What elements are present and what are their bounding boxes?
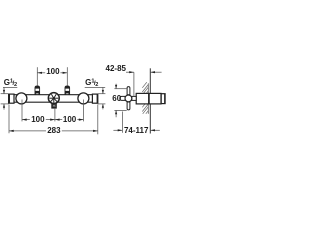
handle top arm <box>127 87 130 95</box>
wall hatch boundary below body <box>147 102 149 114</box>
G1/2 right down arrow <box>102 87 104 93</box>
dimension 60: bottom stub <box>114 109 126 111</box>
G1/2 right bottom stub <box>98 103 106 105</box>
wall hatch boundary above body <box>147 83 149 93</box>
left end block face line <box>8 94 10 103</box>
svg-text:283: 283 <box>47 126 61 135</box>
handle hub <box>125 95 132 102</box>
G1/2 left bottom stub <box>1 103 9 105</box>
left union nut circle <box>16 93 27 104</box>
neck between hub and body <box>132 96 136 100</box>
body end cap <box>161 94 165 104</box>
wall hatching above body <box>142 82 148 93</box>
valve body main cylinder <box>136 93 161 104</box>
wire: bar top edge <box>9 94 98 96</box>
svg-text:60: 60 <box>112 94 121 103</box>
body joint line at wall <box>148 93 150 104</box>
dimension 60: lower segment + up arrow <box>115 110 117 117</box>
handle front arm (towards viewer) <box>120 96 125 100</box>
dimension 60: upper segment + down arrow <box>115 84 117 89</box>
top fitting left <box>35 86 40 95</box>
right union nut circle <box>78 93 89 104</box>
svg-text:100: 100 <box>46 67 60 76</box>
dimension 100 top: extension lines <box>36 67 38 85</box>
top fitting right <box>65 86 70 95</box>
svg-text:100: 100 <box>31 115 45 124</box>
G1/2 right leader underline <box>85 86 106 88</box>
wire: bar bottom edge <box>9 101 98 103</box>
dimension 100 lower-left: extension lines <box>21 100 23 122</box>
dimension 100 lower-right: line + arrows <box>55 119 84 121</box>
dimension 74-117: left arrow <box>113 129 122 131</box>
G1/2 left top stub <box>1 93 9 95</box>
dimension 42-85: left arrow <box>126 71 134 73</box>
outlet stem below handwheel <box>52 104 56 108</box>
dimension 100 top: line + arrows <box>37 72 67 74</box>
G1/2 right up arrow <box>102 104 104 110</box>
wall hatching below body <box>142 102 148 114</box>
dimension 283: line + arrows <box>9 130 98 132</box>
handle bottom arm <box>127 102 130 110</box>
G1/2 right top stub <box>98 93 106 95</box>
dimension 74-117: extension line left <box>121 112 123 133</box>
dimension 283: extension lines <box>8 105 10 134</box>
right end block <box>92 94 97 103</box>
wall face line <box>149 68 151 133</box>
G1/2 left up arrow <box>3 104 5 110</box>
G1/2 left down arrow <box>3 87 5 93</box>
dimension 42-85: right arrow <box>150 71 161 73</box>
dimension 42-85: left extension line <box>133 72 135 96</box>
svg-text:42-85: 42-85 <box>106 64 127 73</box>
center handwheel (star) <box>48 93 59 104</box>
G1/2 left leader underline <box>3 86 17 88</box>
dimension 74-117: right arrow <box>150 129 160 131</box>
svg-text:74-117: 74-117 <box>124 126 149 135</box>
dimension 100 lower-left: line + arrows <box>22 119 55 121</box>
dimension 60: top stub <box>114 88 126 90</box>
svg-text:100: 100 <box>63 115 77 124</box>
left end block <box>9 94 14 103</box>
